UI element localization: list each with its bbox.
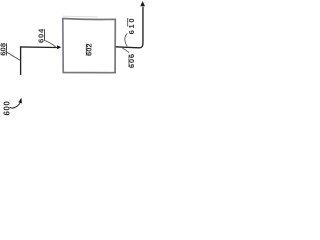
label 610 underline [127,18,129,27]
label 602 underline [85,44,87,56]
arrowhead output up [140,1,145,6]
leader 610 to wire [125,34,127,47]
leader 604 to wire [44,40,55,47]
label 608 underline [6,43,8,55]
svg-text:606: 606 [127,53,136,68]
block 602 box [63,19,116,73]
wire input vertical segment [20,47,22,75]
wire input horizontal segment [20,46,57,49]
scan ghost above box top edge [63,15,99,18]
arrowhead into box left [57,45,61,49]
svg-text:602: 602 [85,43,94,56]
scan chroma tint on box left edge [62,20,64,73]
label 606 underline [128,55,130,67]
leader 608 to wire [5,51,20,60]
svg-text:610: 610 [127,17,136,35]
wire output from box right curving up [116,7,143,48]
arrowhead 600 [18,98,22,104]
leader 600 curved arrow [10,103,20,108]
label 604 underline [44,29,46,41]
leader 606 to wire [122,48,129,53]
